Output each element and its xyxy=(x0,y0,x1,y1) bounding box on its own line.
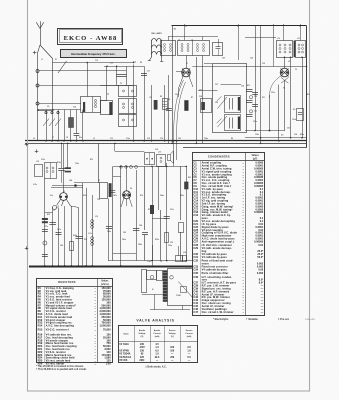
svg-text:C36: C36 xyxy=(193,275,198,279)
wire v196 xyxy=(196,57,198,143)
resistor R20 dark xyxy=(184,182,188,190)
svg-text:Parts of whistle filter: Parts of whistle filter xyxy=(202,272,229,275)
svg-text:C14: C14 xyxy=(73,106,76,109)
svg-text:C48: C48 xyxy=(139,224,142,227)
svg-text:C29: C29 xyxy=(241,86,244,88)
svg-text:C51a: C51a xyxy=(170,209,174,211)
capacitor C45 box xyxy=(145,153,155,165)
svg-text:C33a: C33a xyxy=(271,92,275,94)
svg-text:Current: Current xyxy=(185,332,193,335)
wire right border xyxy=(306,26,308,148)
svg-text:R1a: R1a xyxy=(79,137,82,139)
svg-text:1.00: 1.00 xyxy=(106,363,111,366)
capacitor C42 xyxy=(75,237,83,239)
svg-text:R14: R14 xyxy=(38,324,43,328)
svg-text:R12a: R12a xyxy=(57,162,61,164)
wire v290 xyxy=(290,57,292,138)
wire y66 right xyxy=(192,66,306,68)
capacitor C22a xyxy=(166,109,172,111)
svg-text:V1 TH4A: V1 TH4A xyxy=(119,343,129,346)
svg-text:(mA): (mA) xyxy=(187,335,192,338)
node aerial tap 3 xyxy=(36,102,39,105)
svg-text:† Variable.: † Variable. xyxy=(246,318,259,321)
wire y253 xyxy=(113,253,136,255)
svg-text:V4 cathode by-pass: V4 cathode by-pass xyxy=(202,268,228,271)
wire transformer top feeds xyxy=(239,24,301,67)
wire v279 xyxy=(278,85,280,141)
label cluster lower xyxy=(36,149,191,254)
svg-text:R6: R6 xyxy=(150,97,152,99)
svg-text:-100†: -100† xyxy=(139,347,146,349)
svg-text:C35a: C35a xyxy=(41,159,45,161)
svg-text:S1: S1 xyxy=(55,59,57,61)
capacitor C43 xyxy=(133,229,140,231)
node speech coil b xyxy=(170,276,174,280)
wire v67b xyxy=(67,143,69,168)
svg-text:C50: C50 xyxy=(170,242,173,244)
capacitor C39 xyxy=(42,255,48,257)
svg-text:RESISTORS: RESISTORS xyxy=(58,280,76,284)
svg-text:V3-C.G. resistors†: V3-C.G. resistors† xyxy=(46,328,70,331)
resistor R1 xyxy=(69,110,74,141)
capacitor C31 xyxy=(246,110,253,117)
capacitor C17 xyxy=(141,74,147,76)
wire v78 xyxy=(78,207,80,265)
capacitor C32b xyxy=(252,105,258,107)
wire v83 xyxy=(82,183,84,266)
resistors table xyxy=(37,278,113,366)
wire v255 xyxy=(255,26,257,131)
wire top link xyxy=(168,24,219,43)
svg-text:R12: R12 xyxy=(47,214,50,216)
svg-text:V4: V4 xyxy=(130,187,132,190)
svg-text:L9: L9 xyxy=(288,61,290,63)
svg-text:R9: R9 xyxy=(231,138,233,140)
svg-text:C31: C31 xyxy=(193,255,198,259)
wire V2 anode drop xyxy=(284,80,286,131)
svg-text:C20: C20 xyxy=(178,138,181,140)
wire v173 screened xyxy=(173,141,175,167)
svg-text:0.00005: 0.00005 xyxy=(254,240,264,243)
wire v136 xyxy=(136,170,138,261)
svg-text:R2: R2 xyxy=(140,62,142,64)
svg-text:C37a: C37a xyxy=(44,226,48,228)
wire V2 grid curve xyxy=(269,77,280,99)
svg-text:4.5: 4.5 xyxy=(293,108,295,111)
capacitor C32a xyxy=(252,93,258,95)
svg-text:C15: C15 xyxy=(110,63,113,65)
wire comb v4 xyxy=(64,110,66,141)
node speech coil a xyxy=(150,276,154,280)
node plus mark top left xyxy=(33,51,37,55)
wire v164 xyxy=(164,85,166,141)
svg-text:Osc. circuit L.W. trimmer: Osc. circuit L.W. trimmer xyxy=(202,311,234,314)
IF transformer L10/L11 xyxy=(277,41,306,58)
svg-text:C43: C43 xyxy=(123,231,126,234)
svg-text:Anode: Anode xyxy=(154,329,161,332)
node junction y130 xyxy=(269,130,271,132)
wire v269 xyxy=(269,95,271,131)
svg-text:75,000: 75,000 xyxy=(103,328,111,331)
svg-text:0.002: 0.002 xyxy=(257,272,264,275)
transformer T2 box c xyxy=(119,115,137,127)
valve analysis table xyxy=(118,326,198,363)
valve V1 frequency changer xyxy=(176,56,193,98)
svg-text:C18: C18 xyxy=(147,138,150,140)
wire y103 xyxy=(39,103,81,105)
svg-text:V4 PEN A4: V4 PEN A4 xyxy=(119,356,132,359)
svg-text:C7: C7 xyxy=(52,137,54,139)
capacitor C4 xyxy=(74,110,80,141)
label cluster top xyxy=(47,38,300,136)
frame aerial L1 xyxy=(38,45,53,141)
svg-text:C8: C8 xyxy=(66,137,68,139)
svg-text:EKCO - AW88: EKCO - AW88 xyxy=(64,35,118,42)
capacitor C38 circle xyxy=(43,241,47,245)
capacitor C35 xyxy=(58,143,64,182)
wire y213 short xyxy=(45,212,53,214)
wire v183 xyxy=(182,305,184,309)
wire v186 xyxy=(186,166,188,260)
wire v67 xyxy=(63,143,65,185)
svg-text:Anode: Anode xyxy=(139,329,146,332)
wire v302 xyxy=(302,57,304,138)
coil L18 xyxy=(91,237,94,246)
wire y187 xyxy=(51,187,83,189)
svg-text:L14: L14 xyxy=(183,251,186,254)
svg-text:C46: C46 xyxy=(60,244,63,247)
svg-text:1/250 d25: 1/250 d25 xyxy=(305,319,316,321)
node plus mark at mid bus xyxy=(25,143,29,147)
capacitor C21 box xyxy=(213,43,223,56)
label speckle extra xyxy=(33,58,310,298)
svg-text:C32: C32 xyxy=(262,63,265,65)
resistor R16 box xyxy=(70,242,74,251)
wire v115 xyxy=(114,143,116,151)
svg-text:V2: V2 xyxy=(295,69,297,71)
coil L2 box xyxy=(81,97,101,113)
wire v120 xyxy=(120,166,122,265)
IF transformer L7/L8 xyxy=(178,40,210,56)
svg-text:C32: C32 xyxy=(193,259,198,263)
svg-text:R11: R11 xyxy=(262,97,265,99)
wire v99 xyxy=(98,143,100,183)
wire top HT bus xyxy=(172,25,307,27)
svg-text:230: 230 xyxy=(170,357,175,359)
wire v92 xyxy=(92,195,94,266)
wire v86 lower xyxy=(86,188,88,266)
transformer T2 box b xyxy=(119,99,137,114)
svg-text:0.01: 0.01 xyxy=(258,244,263,247)
svg-text:R13: R13 xyxy=(90,159,93,161)
svg-text:C25: C25 xyxy=(222,58,225,60)
svg-text:Voltage: Voltage xyxy=(138,332,146,335)
svg-text:C30: C30 xyxy=(287,128,290,130)
svg-text:50.0*: 50.0* xyxy=(257,256,263,259)
svg-text:C28: C28 xyxy=(215,102,218,104)
capacitor C30 xyxy=(246,96,253,103)
svg-text:R19a: R19a xyxy=(155,239,159,241)
oscillator coil unit box xyxy=(204,64,247,133)
svg-text:100: 100 xyxy=(170,347,175,349)
wire v152b xyxy=(152,245,154,266)
svg-text:C31: C31 xyxy=(254,111,257,113)
svg-text:Values: Values xyxy=(101,281,109,283)
capacitor C29 xyxy=(246,90,253,92)
antenna AE xyxy=(36,21,43,45)
svg-text:L4: L4 xyxy=(107,93,109,96)
heater terminals xyxy=(130,166,138,169)
wire v59 lower xyxy=(58,208,60,266)
wire v178 xyxy=(178,246,180,256)
wire mid bus upper xyxy=(25,140,307,142)
valve V2 IF amplifier xyxy=(280,57,289,83)
svg-text:C36a: C36a xyxy=(75,163,79,165)
svg-text:* Electrolytic.: * Electrolytic. xyxy=(213,318,229,321)
svg-text:V4 cathode by-pass: V4 cathode by-pass xyxy=(202,256,228,259)
switch S1 wavechange xyxy=(58,61,67,73)
wire v155 xyxy=(154,294,156,310)
svg-text:C17: C17 xyxy=(147,71,150,73)
wire below speaker xyxy=(150,309,190,311)
wire v151 xyxy=(151,85,153,141)
wire v145 xyxy=(144,166,146,230)
capacitor C53 xyxy=(142,233,148,261)
resistor R19 box xyxy=(165,233,169,243)
wire y85 link xyxy=(100,85,119,87)
wire v71 lower xyxy=(71,206,73,266)
svg-text:C50a: C50a xyxy=(168,245,172,247)
node plus mark lower left xyxy=(35,149,39,153)
svg-text:CONDENSERS: CONDENSERS xyxy=(208,155,230,159)
svg-text:C5: C5 xyxy=(33,138,35,140)
condenser footnote xyxy=(213,318,316,321)
wire v181 xyxy=(180,166,182,220)
coil L16 box xyxy=(45,163,57,179)
svg-text:C44: C44 xyxy=(69,179,72,182)
svg-text:C30: C30 xyxy=(254,96,257,98)
svg-text:V2 VP4B: V2 VP4B xyxy=(119,349,129,352)
wire y182 xyxy=(74,182,100,184)
svg-text:C23: C23 xyxy=(199,90,202,92)
title box EKCO - AW88 xyxy=(58,29,123,45)
wire v44 xyxy=(44,179,46,266)
capacitor C36 dark xyxy=(65,167,71,172)
svg-text:Current: Current xyxy=(153,332,161,335)
svg-text:T3a: T3a xyxy=(97,199,100,201)
svg-text:R10: R10 xyxy=(247,85,250,87)
wire comb v83 xyxy=(82,110,84,141)
coil L5 box xyxy=(101,101,113,116)
svg-text:T2: T2 xyxy=(120,83,122,85)
svg-text:V5 UU6: V5 UU6 xyxy=(119,360,128,362)
svg-text:C34: C34 xyxy=(193,267,198,271)
wire v176 screened xyxy=(176,141,178,160)
svg-text:R16: R16 xyxy=(140,195,143,197)
svg-text:C26: C26 xyxy=(250,58,253,60)
svg-text:A.V.C. line decoupling: A.V.C. line decoupling xyxy=(46,325,75,328)
svg-text:Screen: Screen xyxy=(186,330,193,332)
valve V4 output pentode xyxy=(121,166,132,207)
svg-text:L6: L6 xyxy=(178,40,180,42)
IF can box xyxy=(100,183,112,199)
wire v158 xyxy=(158,166,160,210)
wire v52 xyxy=(52,207,54,266)
svg-text:(μF): (μF) xyxy=(253,158,258,160)
node aerial tap 1 xyxy=(36,70,39,73)
svg-text:0.05: 0.05 xyxy=(258,268,263,271)
wire v107 xyxy=(106,66,108,100)
capacitor C47 xyxy=(56,233,62,235)
svg-text:R8: R8 xyxy=(168,99,170,101)
resistor R7 dark xyxy=(184,100,188,111)
svg-text:C19: C19 xyxy=(160,138,163,140)
svg-text:L13: L13 xyxy=(158,152,161,154)
wire y66 xyxy=(104,66,144,68)
svg-text:C31a: C31a xyxy=(253,121,257,123)
wire screened lead a xyxy=(174,80,184,141)
output transformer T4 xyxy=(142,270,168,302)
wire v160 xyxy=(160,210,162,261)
capacitor C16 gang xyxy=(116,66,126,85)
svg-text:C35: C35 xyxy=(193,271,198,275)
wire v144 xyxy=(144,66,146,141)
svg-text:L7: L7 xyxy=(191,40,193,42)
IF transformer L6 xyxy=(161,41,176,56)
node aerial tap 2 xyxy=(36,84,39,87)
capacitor C2 trimmer xyxy=(49,110,55,141)
svg-text:C24: C24 xyxy=(199,95,202,98)
wire rail above condenser table xyxy=(183,147,307,149)
wire y73 xyxy=(39,70,126,72)
wire y130 xyxy=(245,130,285,132)
svg-text:32.0: 32.0 xyxy=(155,357,160,359)
svg-text:R15: R15 xyxy=(38,327,43,331)
capacitor C51 xyxy=(164,217,170,219)
transformer T2 box a xyxy=(119,86,137,97)
capacitor C49 xyxy=(106,227,112,229)
capacitor C52 box xyxy=(183,256,187,262)
svg-text:V3: V3 xyxy=(63,191,65,193)
resistor R3 xyxy=(154,100,158,110)
svg-text:‡ Pre-set.: ‡ Pre-set. xyxy=(278,318,290,321)
svg-text:V3a: V3a xyxy=(50,195,53,197)
svg-text:C27: C27 xyxy=(215,84,218,86)
svg-text:V3 TDD4A: V3 TDD4A xyxy=(119,353,131,356)
capacitor C27 variable xyxy=(217,96,241,113)
wire y90 link xyxy=(198,90,218,92)
svg-text:100: 100 xyxy=(170,350,175,352)
subtitle box intermediate frequency xyxy=(61,50,127,58)
choke L14 box xyxy=(176,256,183,262)
wire bottom chassis bus xyxy=(29,266,193,268)
svg-text:VALVE ANALYSIS: VALVE ANALYSIS xyxy=(136,318,174,322)
capacitor C33 box xyxy=(297,109,304,121)
wire mid bus lower xyxy=(25,143,307,145)
capacitor C3 trimmer xyxy=(55,110,61,141)
wire speaker bottom xyxy=(142,294,163,296)
svg-text:Valve: Valve xyxy=(123,334,129,336)
resistors footnote xyxy=(36,365,87,371)
resistor R12 dark xyxy=(42,218,48,220)
svg-text:1,000,000: 1,000,000 xyxy=(99,325,111,328)
wire y151 xyxy=(115,151,144,153)
wire y219 link xyxy=(152,218,167,220)
valve V3 double diode triode xyxy=(52,184,83,266)
capacitor C28 variable xyxy=(217,115,241,131)
svg-text:V2: V2 xyxy=(283,88,285,90)
svg-text:C33b: C33b xyxy=(292,119,296,121)
svg-text:C47: C47 xyxy=(193,310,198,314)
wire screened lead b xyxy=(177,82,186,141)
wire box out xyxy=(100,100,107,102)
wire v113 xyxy=(112,166,114,260)
svg-text:Voltage: Voltage xyxy=(169,332,177,335)
svg-text:(V): (V) xyxy=(141,336,144,338)
svg-text:4.5: 4.5 xyxy=(281,134,283,137)
svg-text:V1: V1 xyxy=(186,63,188,65)
wire y260 rail xyxy=(108,260,193,262)
capacitor C41 xyxy=(109,191,115,193)
svg-text:R22a: R22a xyxy=(300,134,304,136)
svg-text:L11: L11 xyxy=(297,38,300,40)
wire v166 xyxy=(166,163,168,261)
node plus mark bottom left xyxy=(25,246,29,250)
coil L13 box xyxy=(157,155,166,167)
svg-text:‡ Both anode, A.C.: ‡ Both anode, A.C. xyxy=(145,365,166,368)
svg-text:C16a: C16a xyxy=(126,138,130,140)
svg-text:Anti-regeneration coupl.‡: Anti-regeneration coupl.‡ xyxy=(202,240,235,243)
svg-text:L1: L1 xyxy=(41,59,43,61)
svg-text:L15a: L15a xyxy=(33,184,37,186)
svg-text:(V): (V) xyxy=(171,336,174,338)
speaker frame xyxy=(168,269,193,306)
wire v109 lower xyxy=(108,199,110,261)
resistor R23 box xyxy=(179,223,184,261)
wire y83 xyxy=(39,85,134,87)
svg-text:C34: C34 xyxy=(294,133,297,136)
node grid terminal xyxy=(53,206,57,210)
wire y64 xyxy=(53,62,134,64)
svg-text:0.00005: 0.00005 xyxy=(254,211,264,214)
wire y137 xyxy=(245,137,307,139)
coil L15 box xyxy=(35,165,43,177)
tone corrector xyxy=(168,151,174,163)
capacitor C37 xyxy=(42,230,48,232)
svg-text:C27: C27 xyxy=(193,239,198,243)
coil L17 xyxy=(91,220,94,229)
svg-text:L17a: L17a xyxy=(88,233,92,235)
svg-text:DIAL LAMPS: DIAL LAMPS xyxy=(151,32,162,35)
svg-text:L16: L16 xyxy=(95,216,98,218)
svg-text:C12: C12 xyxy=(110,138,113,140)
svg-text:C29: C29 xyxy=(193,246,198,250)
dial lamps xyxy=(148,32,163,66)
svg-text:† This 50,000 Ω is in parallel: † This 50,000 Ω is in parallel with coil… xyxy=(36,368,87,371)
svg-text:(mA): (mA) xyxy=(155,335,160,338)
heater circles extra xyxy=(120,166,128,169)
svg-text:(ohms): (ohms) xyxy=(101,284,109,286)
wire v168 xyxy=(168,75,170,143)
svg-text:L3: L3 xyxy=(93,138,95,140)
svg-text:C13: C13 xyxy=(95,60,98,62)
wire y176 link xyxy=(113,176,121,178)
svg-text:R5: R5 xyxy=(160,96,162,98)
wire y166 rail xyxy=(113,166,186,168)
svg-text:R16b: R16b xyxy=(73,235,77,237)
svg-text:Screen: Screen xyxy=(169,330,176,332)
svg-text:L15: L15 xyxy=(36,161,39,163)
